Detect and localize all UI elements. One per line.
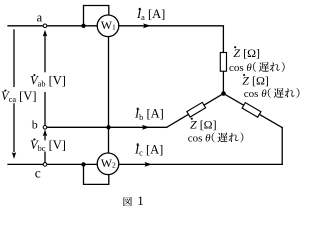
backing for label Vca <box>0 87 29 103</box>
wattmeter W2 <box>97 153 119 175</box>
svg-text:Z [Ω]: Z [Ω] <box>242 74 269 88</box>
arrowhead voltage Vca (down, toward c) <box>12 152 16 159</box>
arrowhead voltage Vab (up, toward a) <box>43 30 47 37</box>
label cos theta (lag) phase c <box>244 88 300 100</box>
label cos theta (lag) phase a <box>229 62 285 74</box>
wire W2 current-coil loop <box>84 164 109 184</box>
svg-text:a: a <box>37 10 43 24</box>
label voltage Vab [V] <box>30 74 66 89</box>
arrowhead current Ib <box>142 125 150 130</box>
label current Ia [A] <box>136 7 165 22</box>
label current Ib [A] <box>134 107 164 122</box>
voltage arrow Vab line <box>44 36 46 125</box>
backing for label Vbc <box>29 140 65 151</box>
svg-text:cos θ: cos θ <box>229 62 252 74</box>
arrowhead current Ic <box>145 162 153 167</box>
wire W1 current-coil loop <box>84 6 109 26</box>
wire diagonal star point to right corner <box>224 94 283 128</box>
label impedance Z [ohm] phase c (right) <box>242 74 269 88</box>
backing for label Vab <box>29 72 65 92</box>
arrowhead voltage Vbc (up, toward b) <box>43 129 47 136</box>
impedance Z phase-b (diagonal box) <box>187 102 206 117</box>
label cos theta (lag) phase b <box>188 132 244 144</box>
terminal a (open circle) <box>43 24 47 28</box>
svg-text:Z [Ω]: Z [Ω] <box>190 117 217 131</box>
wire phase-a horizontal line with corner down to load <box>8 26 223 53</box>
label impedance Z [ohm] phase a <box>233 46 260 60</box>
wire phase-b diagonal to star point <box>167 94 224 128</box>
svg-text:Z [Ω]: Z [Ω] <box>233 46 260 60</box>
node star (neutral) point <box>221 91 226 96</box>
wire right vertical from diagonal corner down to phase-c line <box>281 128 283 165</box>
svg-text:Vca [V]: Vca [V] <box>1 89 37 104</box>
svg-text:b: b <box>32 118 38 132</box>
impedance Z phase-c (diagonal box) <box>242 103 261 118</box>
node junction dot on line c <box>81 162 85 166</box>
node junction dot on line b <box>106 125 110 129</box>
svg-text:1: 1 <box>137 193 144 208</box>
wire phase-b horizontal line <box>47 126 167 128</box>
label impedance Z [ohm] phase b <box>190 117 217 131</box>
svg-text:cos θ: cos θ <box>244 88 267 100</box>
impedance Z phase-a (vertical box) <box>220 53 226 72</box>
voltage arrow Vbc line <box>44 135 46 162</box>
label figure caption 'Zu 1' <box>123 193 143 208</box>
svg-text:Vbc [V]: Vbc [V] <box>30 138 66 153</box>
label voltage Vbc [V] <box>30 138 66 153</box>
terminal c (open circle) <box>43 163 47 167</box>
svg-text:c: c <box>35 166 41 181</box>
node junction dot on line a <box>81 24 85 28</box>
wire phase-a from impedance bottom to star point <box>222 71 224 93</box>
label voltage Vca [V] <box>1 89 37 104</box>
voltage arrow Vca line <box>13 30 15 152</box>
wire phase-c horizontal line <box>8 163 282 165</box>
terminal b (open circle) <box>43 126 47 130</box>
arrowhead current Ia <box>143 23 151 28</box>
label current Ic [A] <box>134 142 163 157</box>
svg-text:Vab [V]: Vab [V] <box>30 74 66 89</box>
wire voltage-coil vertical W1 to W2 through node on line b <box>108 37 110 153</box>
wattmeter W1 <box>97 15 119 37</box>
svg-text:cos θ: cos θ <box>188 132 211 144</box>
